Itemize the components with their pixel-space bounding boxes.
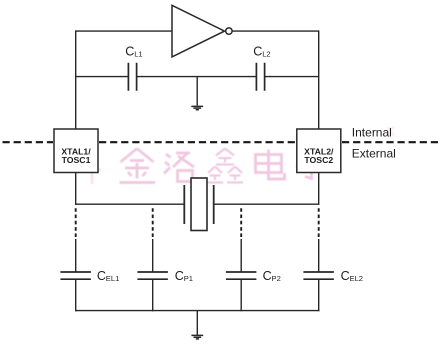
- svg-text:EL1: EL1: [106, 274, 120, 283]
- wire: load-cap rail middle segment: [137, 76, 256, 78]
- wire: CEL2 to ground rail: [318, 280, 320, 312]
- capacitor CEL1: [60, 272, 91, 279]
- wire: right rail XTAL2 down from output: [318, 30, 320, 129]
- svg-text:C: C: [175, 269, 184, 283]
- wire: CP2 to ground rail: [240, 280, 242, 312]
- wire: XTAL2 box down to crystal rail: [318, 173, 320, 205]
- node XTAL1/TOSC1: [54, 129, 98, 173]
- svg-text:EL2: EL2: [350, 274, 364, 283]
- wire: lead to CEL2: [318, 239, 320, 272]
- wire: crystal rail left segment: [76, 203, 185, 205]
- wire: ground stub bottom: [196, 311, 198, 335]
- svg-text:C: C: [253, 45, 262, 59]
- wire: ground stub below inverter: [196, 77, 198, 106]
- wire: load-cap rail right segment: [265, 76, 319, 78]
- wire: dashed lead CP2: [240, 208, 242, 239]
- svg-text:L2: L2: [262, 49, 270, 58]
- ground (bottom): [191, 335, 203, 339]
- svg-text:C: C: [97, 269, 106, 283]
- wire: CEL1 to ground rail: [75, 280, 77, 312]
- wire: dashed lead CP1: [152, 208, 154, 239]
- wire: crystal rail right segment: [214, 203, 319, 205]
- capacitor CP2: [226, 272, 257, 279]
- wire: XTAL1 box down to crystal rail: [75, 173, 77, 205]
- wire: inverter output to right rail: [232, 30, 318, 32]
- capacitor CL2: [256, 63, 264, 91]
- wire: lead to CP2: [240, 239, 242, 272]
- crystal Y1: [184, 178, 213, 231]
- svg-text:C: C: [341, 269, 350, 283]
- label CP1: [175, 269, 193, 283]
- capacitor CP1: [137, 272, 168, 279]
- internal/external boundary dashed line: [3, 141, 442, 143]
- svg-text:C: C: [125, 45, 134, 59]
- label CEL1: [97, 269, 119, 283]
- wire: left rail XTAL1 down from feedback: [75, 30, 77, 129]
- svg-text:P1: P1: [184, 274, 193, 283]
- label CP2: [263, 269, 281, 283]
- label CL1: [125, 45, 142, 59]
- label CEL2: [341, 269, 363, 283]
- inverter U1: [172, 5, 232, 57]
- wire: feedback top from left rail to inverter input: [76, 30, 172, 32]
- svg-text:TOSC2: TOSC2: [304, 155, 333, 165]
- svg-text:External: External: [352, 147, 396, 161]
- wire: lead to CEL1: [75, 239, 77, 272]
- wire: load-cap rail left segment: [76, 76, 129, 78]
- svg-text:P2: P2: [272, 274, 281, 283]
- svg-text:C: C: [263, 269, 272, 283]
- wire: dashed lead CEL1: [75, 208, 77, 239]
- wire: CP1 to ground rail: [152, 280, 154, 312]
- svg-text:TOSC1: TOSC1: [62, 155, 91, 165]
- faint watermark smudge upper right: [388, 127, 395, 137]
- svg-text:L1: L1: [134, 49, 142, 58]
- capacitor CEL2: [303, 272, 334, 279]
- svg-text:Internal: Internal: [352, 125, 392, 139]
- node XTAL2/TOSC2: [297, 129, 341, 173]
- label CL2: [253, 45, 270, 59]
- wire: lead to CP1: [152, 239, 154, 272]
- capacitor CL1: [128, 63, 136, 91]
- wire: bottom ground rail: [75, 310, 319, 312]
- faint partial watermark fragment left of main row: [85, 162, 101, 184]
- ground (top): [191, 106, 203, 109]
- wire: dashed lead CEL2: [318, 208, 320, 239]
